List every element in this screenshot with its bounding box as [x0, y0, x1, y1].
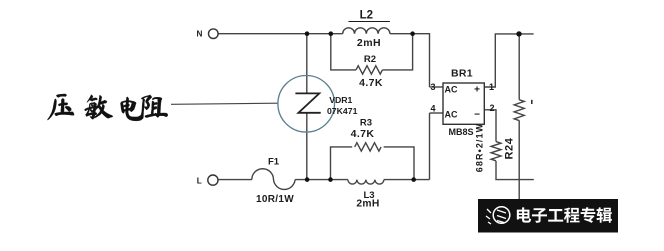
svg-text:2mH: 2mH: [357, 37, 381, 49]
svg-text:2mH: 2mH: [356, 199, 379, 210]
svg-text:4: 4: [430, 104, 435, 114]
svg-text:L2: L2: [360, 9, 373, 21]
svg-text:R24: R24: [504, 137, 516, 159]
svg-text:BR1: BR1: [451, 68, 473, 80]
svg-text:MB8S: MB8S: [448, 127, 473, 137]
svg-text:R2: R2: [364, 54, 376, 65]
svg-text:AC: AC: [445, 110, 458, 120]
svg-text:1: 1: [489, 82, 494, 92]
svg-text:+: +: [474, 84, 480, 95]
svg-text:4.7K: 4.7K: [351, 128, 375, 140]
svg-text:3: 3: [430, 82, 435, 92]
svg-text:F1: F1: [268, 157, 280, 168]
svg-text:4.7K: 4.7K: [359, 77, 383, 89]
svg-text:68R•2/1W: 68R•2/1W: [474, 123, 484, 172]
svg-text:VDR1: VDR1: [329, 95, 352, 105]
svg-text:AC: AC: [445, 84, 458, 94]
svg-text:N: N: [197, 30, 203, 39]
svg-text:L: L: [197, 177, 202, 186]
svg-text:07K471: 07K471: [327, 106, 358, 116]
svg-text:−: −: [474, 110, 480, 121]
svg-text:10R/1W: 10R/1W: [256, 194, 294, 205]
svg-text:2: 2: [489, 103, 494, 113]
